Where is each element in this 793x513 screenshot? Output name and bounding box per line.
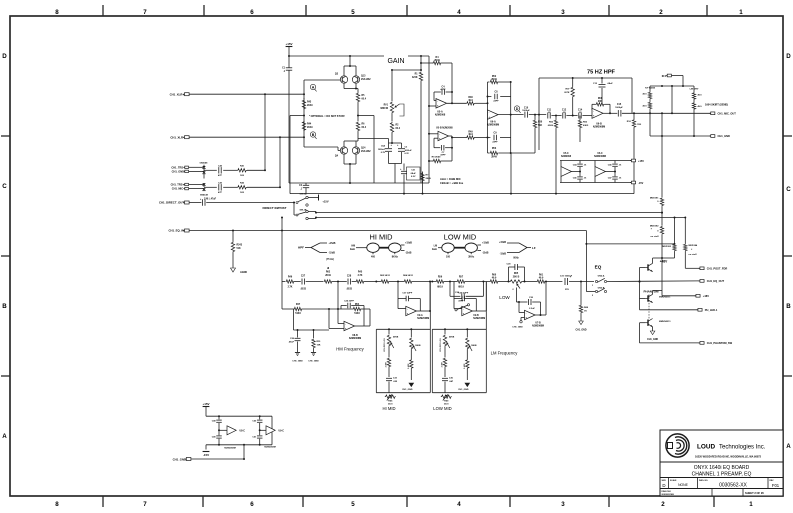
pot HM freq knob [389,243,401,252]
svg-text:47PF: 47PF [440,88,446,91]
svg-text:49.9: 49.9 [468,99,473,102]
svg-text:CH1_GND: CH1_GND [458,389,469,391]
svg-text:80Hz: 80Hz [513,258,519,260]
svg-text:22PF: 22PF [492,142,498,144]
svg-text:R63 9K31: R63 9K31 [380,275,391,277]
svg-text:51K: 51K [637,124,641,126]
svg-text:R56: R56 [438,276,443,278]
rail gain bottom [289,182,429,184]
svg-text:20% REV LOG: 20% REV LOG [384,338,386,352]
svg-text:2SA1462: 2SA1462 [361,78,371,81]
svg-text:3: 3 [561,501,565,508]
wires TRS rows [189,166,204,168]
svg-text:+15V: +15V [202,402,209,406]
svg-text:R65: R65 [514,273,519,275]
svg-text:+48V: +48V [660,259,668,263]
svg-text:400: 400 [371,256,376,259]
svg-text:C: C [2,183,7,190]
svg-text:-: - [489,111,490,114]
wire eq-in to MDD net [586,243,674,245]
connector CH1_POST_FDR [685,267,700,269]
svg-text:LOW MID: LOW MID [433,406,451,411]
transistor Q15 [647,264,649,270]
terminal -15V [631,181,635,184]
svg-text:CH1_PHANTOM_SW: CH1_PHANTOM_SW [707,341,733,345]
capacitor C27 .0033 [301,279,303,285]
resistor R54 51K6 [353,307,362,310]
resistor R243 51K [232,231,234,242]
svg-text:68uF: 68uF [411,173,417,175]
svg-text:NJM2068: NJM2068 [435,113,446,116]
svg-text:C27: C27 [301,275,306,277]
svg-text:51K6: 51K6 [295,313,301,315]
svg-text:6: 6 [250,501,254,508]
svg-text:U5-C: U5-C [563,153,569,155]
svg-text:AGND: AGND [240,271,247,274]
svg-text:GND-A: GND-A [598,274,605,277]
svg-text:U8-C: U8-C [240,431,246,433]
svg-text:49.9: 49.9 [468,133,473,136]
svg-text:CH1_GND: CH1_GND [173,457,186,461]
ground HI MID [409,383,414,387]
wire U5-A out [447,102,466,104]
potentiometer RV1 680CW [391,70,393,101]
svg-text:-: - [437,100,438,103]
resistor MDD183 [674,218,676,244]
wire cap row hi mid [449,282,451,297]
svg-text:2.7K: 2.7K [358,275,363,277]
svg-text:47P: 47P [218,174,222,177]
svg-text:8: 8 [55,9,59,16]
svg-text:-15V: -15V [203,453,209,457]
svg-text:U9-C: U9-C [279,431,285,433]
resistor MDD182 no stuff [660,226,663,235]
op-amp U8-B NJM2068M [344,321,355,330]
wires transistor pair bottom [343,154,345,164]
svg-text:DWG.FILE: DWG.FILE [662,491,672,493]
svg-text:2KHz: 2KHz [468,256,475,259]
svg-text:B: B [2,303,7,310]
svg-text:6.3V: 6.3V [411,176,416,178]
wire gnd up [243,445,245,459]
svg-text:6K19: 6K19 [458,287,464,289]
wire input column [303,80,305,147]
wire LOW MID inner rail [432,328,486,330]
svg-text:2K49: 2K49 [426,177,432,180]
wires transistor pair top [343,66,345,76]
resistor R50 51K [534,115,536,120]
wire hpf left vertical [538,78,540,150]
capacitor C45 .01 [579,174,581,177]
wire vertical to HM freq row [281,218,283,310]
svg-text:Q13: Q13 [361,76,366,78]
wire hm cap row [293,309,295,330]
svg-text:ONYX 1640i EQ BOARD: ONYX 1640i EQ BOARD [694,465,750,471]
transistor Q14 2SA1462 [352,147,359,154]
svg-text:2SA1462: 2SA1462 [361,150,371,153]
power -15V bottom left [205,445,207,450]
resistor R43 2K49 [303,98,305,99]
wire XLR+ to gain block [189,93,304,95]
svg-text:CH1_XLR-: CH1_XLR- [170,136,184,140]
wire caps rail [389,142,402,144]
svg-text:C40 | .47uF: C40 | .47uF [204,197,217,200]
svg-text:CH1_MIC-: CH1_MIC- [172,187,184,191]
svg-text:5: 5 [351,9,355,16]
svg-text:6: 6 [250,9,254,16]
wire LOW MID bottom rail [432,392,486,394]
svg-text:R62: R62 [326,272,331,274]
capacitor C51 .01 [259,434,261,436]
svg-text:49.9: 49.9 [492,277,497,280]
svg-text:50KB: 50KB [415,345,421,347]
frame column ticks top [102,5,104,16]
capacitor C47 .01 [614,174,616,177]
op-amp U6-B NJM2068M [592,108,603,118]
resistor R1 324K [420,56,422,71]
wire +48V out [662,295,696,297]
op-amp U5-A NJM2068 [436,99,447,108]
svg-text:R43: R43 [307,101,312,104]
svg-text:LOW: LOW [499,295,510,300]
wire eq-in vertical to SW2-B [585,231,587,292]
bus wire pre-EQ upper [316,212,662,214]
resistor R47 51K6 [294,307,303,310]
svg-text:Q14: Q14 [361,147,366,150]
svg-text:R46: R46 [288,275,293,278]
svg-text:HI: HI [327,268,330,270]
resistor R48 49.9 [466,102,475,105]
svg-text:C15: C15 [617,104,622,106]
svg-text:CH1_GND: CH1_GND [402,389,413,391]
svg-text:3: 3 [561,9,565,16]
svg-text:CHANNEL 1 PREAMP, EQ: CHANNEL 1 PREAMP, EQ [692,471,752,477]
wire post-hpf vertical [661,113,663,197]
svg-text:MDD181: MDD181 [650,198,659,200]
svg-text:60.4: 60.4 [362,126,367,129]
wire HI MID inner rail [376,328,430,330]
wire Q3 base row [304,79,340,81]
svg-text:2: 2 [661,501,665,508]
svg-text:NJM2068M: NJM2068M [224,448,235,450]
svg-text:Gain: Gain [432,249,438,251]
resistor LIN DRV 49.9 lower [692,102,695,110]
svg-text:U7-B: U7-B [535,323,541,325]
capacitor C4 47PF [434,91,441,93]
svg-text:R53: R53 [492,148,497,150]
wire R5R6 tap [357,115,359,117]
resistor R45 2.7K [356,280,365,283]
capacitor C33 [386,377,392,379]
svg-text:EQ: EQ [595,265,602,270]
svg-text:R61: R61 [539,274,544,276]
svg-text:R243: R243 [237,244,243,247]
labels HM pots [372,252,374,254]
svg-text:5: 5 [351,501,355,508]
svg-text:CH1_GND: CH1_GND [292,361,303,363]
capacitor C11 .22 [547,113,549,119]
resistor R61 49.9 [523,281,537,283]
svg-text:-: - [463,308,464,311]
capacitor C36 [442,377,448,379]
wire HI MID bottom rail [376,392,430,394]
svg-text:CH1_EQ_OUT: CH1_EQ_OUT [707,279,725,283]
svg-text:B: B [312,133,315,137]
wire node XLR+ down to TRS net [264,94,266,170]
wire cap tap 1 [218,427,220,434]
svg-text:LF: LF [532,246,536,250]
svg-text:50KB: 50KB [393,337,399,339]
svg-text:F01: F01 [772,483,780,488]
svg-text:+15dB: +15dB [482,243,489,245]
svg-text:47P: 47P [218,191,222,194]
transistor Q17 [647,320,649,326]
wire SW1-A out to +15V [308,197,318,199]
svg-text:63K5: 63K5 [583,125,589,127]
capacitor C9 22PF [488,137,491,139]
svg-text:GAIN: GAIN [387,58,404,65]
resistor R41 [237,169,247,172]
resistor R9 2K49 [429,160,433,162]
svg-text:D: D [662,483,665,488]
svg-text:HI MID: HI MID [382,406,395,411]
svg-text:.0033: .0033 [346,289,352,291]
svg-text:CH1_TRS+: CH1_TRS+ [171,183,185,187]
connector CH1_PHANTOM_SW [639,323,641,343]
svg-text:CH1_XLR+: CH1_XLR+ [170,93,185,97]
resistor R46 2.7K [286,280,295,283]
node D flag [514,106,519,111]
svg-text:100: 100 [446,256,451,259]
op-amp U8-C buffer [227,426,236,435]
wire phantom base vertical [639,268,641,310]
svg-text:22PF: 22PF [493,101,499,103]
svg-text:R44: R44 [307,123,312,126]
svg-text:2K49: 2K49 [491,156,497,159]
trim pot LOW MID 49.9 [441,395,452,398]
resistor R49 49.9 [466,136,475,139]
svg-text:6.3V: 6.3V [381,152,386,154]
svg-text:-: - [593,110,594,113]
wire U6-B out [603,112,617,114]
op-amp U9-C buffer [266,426,275,435]
svg-text:R57: R57 [459,276,464,278]
svg-text:LM Frequency: LM Frequency [491,351,519,356]
wire U5-B out [449,135,452,137]
svg-text:8KHz: 8KHz [392,256,399,259]
wire hm feed vertical [337,282,339,310]
resistor R4 2K49 [421,62,433,64]
wire tail current [373,116,375,184]
svg-text:R49: R49 [468,131,473,134]
svg-text:C37 22PF: C37 22PF [402,293,413,295]
svg-text:1604 SKIRT (SEND): 1604 SKIRT (SEND) [705,104,728,107]
svg-text:50KB: 50KB [471,345,477,347]
capacitor C13 .68uF [601,78,603,84]
resistor R53 2K49 [488,152,490,154]
svg-text:R47: R47 [296,303,301,306]
svg-text:NJM2068M: NJM2068M [532,326,544,328]
svg-text:-15V: -15V [638,182,644,185]
resistor HI-Z PAD 49.9 lower [648,102,651,110]
svg-text:6.3V: 6.3V [405,153,410,155]
svg-text:680CW: 680CW [380,108,388,110]
svg-text:CH1_GND: CH1_GND [718,134,731,138]
capacitor C28 .0033 [347,279,349,285]
svg-text:U6-C: U6-C [597,153,603,155]
pot R63L 20K B [510,280,523,283]
diode pair D2 6N4148 [203,183,205,191]
resistor R06 63K5 [579,116,581,120]
svg-text:C25 22PF: C25 22PF [344,301,355,303]
svg-text:MMUN2111: MMUN2111 [659,297,671,299]
wire caps to bottom rail [394,164,396,184]
svg-text:1000pF: 1000pF [615,107,623,109]
svg-text:2.2uF: 2.2uF [529,308,535,310]
svg-text:+15V: +15V [322,199,328,203]
capacitor C7 47PF [434,147,440,149]
svg-text:C28: C28 [347,275,352,277]
resistor R42 [237,186,247,189]
resistor R5 60.4 [356,93,359,103]
frame row ticks [1,135,10,137]
svg-text:+15dB: +15dB [405,243,412,245]
svg-text:D: D [516,107,519,111]
power +15V top [286,46,293,48]
svg-text:6K19: 6K19 [437,287,443,289]
svg-text:NJM2068M: NJM2068M [417,318,429,320]
svg-text:PHANTOM: PHANTOM [643,289,659,293]
capacitor C14 .22 [578,113,580,119]
capacitor C30 2.2uF [528,299,530,305]
wire gain right side [428,56,430,183]
pot HM gain knob [356,247,367,249]
resistor R10 51K [633,113,635,119]
svg-text:MMUN2211: MMUN2211 [659,321,671,323]
svg-text:60.2: 60.2 [396,128,401,130]
svg-text:63K6: 63K6 [548,125,554,127]
svg-text:50KB: 50KB [449,337,455,339]
svg-text:D: D [2,53,7,60]
wire gnd row [650,135,710,137]
connector PH_LED-1 [640,309,698,311]
svg-text:-: - [407,308,408,311]
svg-text:2K49: 2K49 [307,104,313,107]
svg-text:U5-B NJM2068: U5-B NJM2068 [436,127,453,130]
capacitor C42 [218,167,220,173]
wire hpf feedback right [631,78,633,113]
svg-text:CH1_GND: CH1_GND [308,361,319,363]
svg-text:RV1: RV1 [384,105,389,107]
node B flag [310,132,315,137]
svg-text:NONE: NONE [678,483,689,487]
wire ladder left [282,281,285,283]
transistor Q16 [647,295,649,301]
svg-text:20% REV LOG: 20% REV LOG [440,338,442,352]
ground AGND [232,253,234,269]
capacitor C48 .01 [218,416,220,419]
pot LM gain knob [438,247,442,249]
svg-text:NJM2068M: NJM2068M [264,447,275,449]
svg-text:7: 7 [143,501,147,508]
wire node XLR- down to TRS net [279,137,281,187]
resistor LOW MID 2.49K A [443,358,446,368]
svg-text:R08: R08 [598,98,603,100]
capacitor C12 .22 [562,113,564,119]
svg-text:1000uF: 1000uF [405,150,413,152]
svg-text:49.9: 49.9 [539,277,544,280]
svg-text:CH1_POST_FDR: CH1_POST_FDR [707,267,728,271]
svg-text:-15dB: -15dB [329,253,336,255]
capacitor C40 .47uF [189,202,201,204]
svg-text:B: B [786,303,791,310]
connector +48V [696,294,700,297]
resistor HI MID 2.49K A [387,358,390,368]
capacitor C21 68uF boxed [403,164,405,171]
wire +15V down [288,47,290,57]
wire U6-A out [498,114,523,116]
svg-text:AinA = 40dB MIC: AinA = 40dB MIC [440,177,461,181]
svg-text:NJM2068M: NJM2068M [594,156,606,158]
capacitor C15 1000pF [617,110,619,117]
svg-text:+15V: +15V [638,160,644,163]
pot LM freq knob [465,243,477,252]
transistor Q3 [340,76,347,83]
svg-text:U9-B: U9-B [473,315,479,317]
bus wire pre-EQ lower [316,217,685,219]
capacitor C31 1000uF 25V [564,278,566,285]
potentiometer LOW MID B 50KB [466,329,468,337]
connector CH1_MIC_OUT [711,112,715,115]
svg-text:1K: 1K [584,310,587,312]
trim pot HI MID 49.9 [385,395,396,398]
svg-text:HPF: HPF [298,245,304,249]
svg-text:51K: 51K [237,248,242,250]
svg-text:2.49K: 2.49K [385,361,388,367]
resistor R51 10K [313,330,315,338]
dashed gang link [648,295,650,320]
svg-text:CH1_GND: CH1_GND [512,326,523,328]
svg-text:2.49K: 2.49K [463,363,466,369]
svg-text:A: A [786,443,791,450]
svg-text:8: 8 [55,501,59,508]
op-amp U5-B NJM2068 [438,131,449,140]
svg-text:C: C [786,186,791,193]
svg-text:47PF: 47PF [458,299,464,302]
resistor R57 6K19 [457,280,466,283]
resistor R44 2K49 [302,121,305,131]
svg-text:1: 1 [749,501,753,508]
connector CH1_EQ_OUT [607,280,700,283]
svg-text:NJM2068M: NJM2068M [349,337,361,340]
svg-text:1000pF: 1000pF [522,110,530,112]
svg-text:75 HZ HPF: 75 HZ HPF [587,70,616,76]
svg-text:2.49K: 2.49K [407,363,410,369]
wire Q4 base row [304,146,338,148]
ground LOW MID [465,383,470,387]
svg-text:267K: 267K [564,92,570,94]
svg-text:+15V: +15V [285,42,292,46]
svg-text:CH1_GND: CH1_GND [576,330,587,332]
resistor LOW MID 2.49K B [466,359,469,369]
svg-text:* OPTIONAL = DO NOT STUFF: * OPTIONAL = DO NOT STUFF [309,115,345,118]
resistor MDD184 no stuff [684,218,686,244]
resistor MDD181 [660,197,663,206]
wire direct out to switch [206,202,295,204]
terminal +15V [631,159,635,162]
svg-text:0030562-XX: 0030562-XX [719,483,747,489]
svg-text:NJM2068M: NJM2068M [487,123,499,126]
